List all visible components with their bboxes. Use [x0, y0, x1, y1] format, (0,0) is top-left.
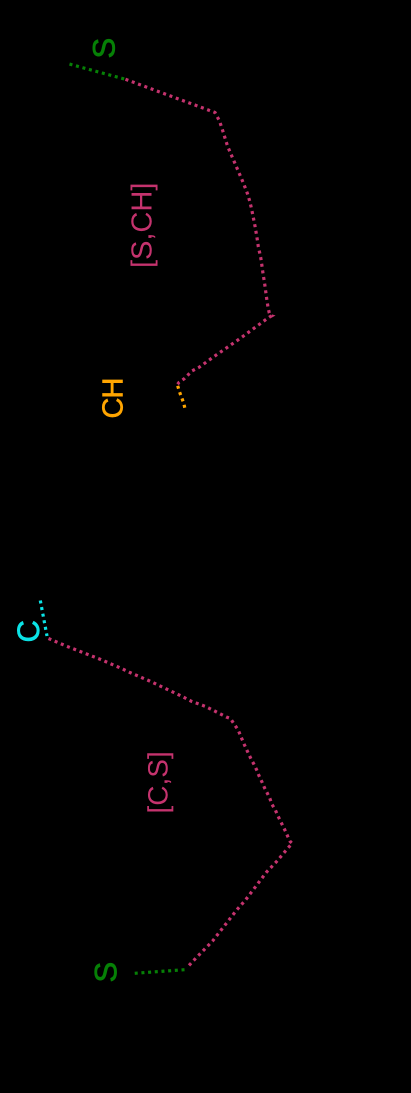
trajectory 2: C segment [40, 601, 47, 637]
trajectory 2: [C,S] segment [49, 639, 293, 968]
label CH [102, 380, 123, 417]
label [S,CH] [130, 185, 157, 266]
label S top [93, 39, 115, 57]
label [C,S] [147, 753, 173, 811]
trajectory 1: [S,CH] segment [126, 79, 272, 384]
label C cyan [17, 621, 39, 641]
trajectory 1: S segment [70, 64, 126, 79]
trajectory 1: CH segment [178, 386, 185, 409]
trajectory 2: S segment [135, 970, 185, 974]
label S bottom [95, 963, 117, 981]
